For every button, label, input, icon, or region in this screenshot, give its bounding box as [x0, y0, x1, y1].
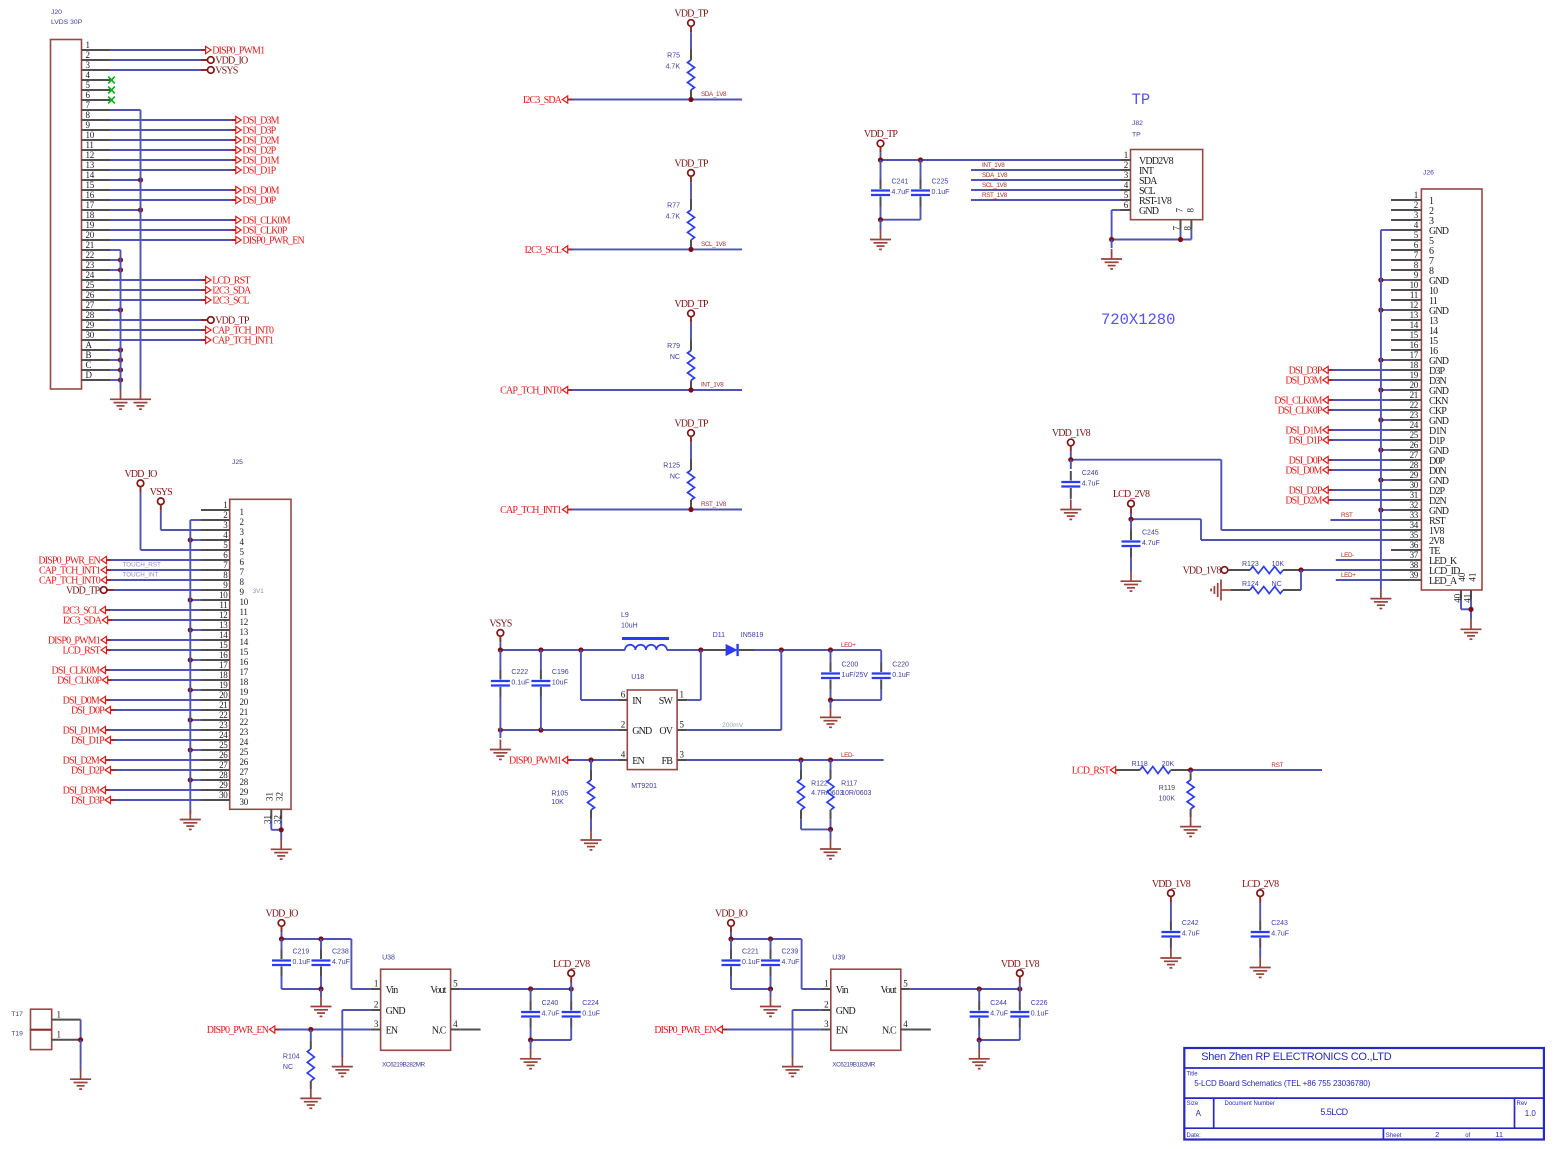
- svg-text:VDD_1V8: VDD_1V8: [1052, 428, 1091, 439]
- wire VDD_IO to J25 pin 5: [140, 487, 142, 550]
- svg-text:31: 31: [1410, 490, 1418, 500]
- J26 pin 22 CKP: [1391, 400, 1447, 417]
- svg-text:34: 34: [1410, 520, 1419, 530]
- svg-text:9: 9: [86, 120, 91, 130]
- svg-text:22: 22: [1410, 400, 1418, 410]
- svg-text:8: 8: [1414, 260, 1419, 270]
- svg-text:5.5LCD: 5.5LCD: [1320, 1107, 1348, 1117]
- J26 pin 3 3: [1391, 210, 1434, 227]
- svg-text:RST_1V8: RST_1V8: [701, 501, 727, 508]
- svg-text:U18: U18: [631, 674, 644, 681]
- svg-text:3: 3: [824, 1019, 829, 1029]
- svg-text:2: 2: [621, 720, 625, 730]
- svg-text:26: 26: [219, 750, 228, 760]
- svg-text:15: 15: [240, 647, 249, 657]
- svg-text:30: 30: [240, 797, 249, 807]
- wire VDD_TP to R79: [690, 317, 692, 340]
- wire J25 pin 20 to DSI_D0M: [106, 699, 202, 701]
- wire U18 EN to DISP0_PWM1: [568, 757, 618, 762]
- svg-text:23: 23: [86, 260, 95, 270]
- U39 pin 2 GND: [821, 1000, 856, 1017]
- wire J25 pin 6 to DISP0_PWR_EN: [107, 559, 202, 561]
- svg-text:7: 7: [86, 100, 91, 110]
- svg-text:EN: EN: [386, 1025, 398, 1036]
- svg-text:10K: 10K: [1272, 561, 1285, 568]
- wire J20 pin 1 to DISP0_PWM1: [110, 49, 206, 51]
- svg-text:C246: C246: [1082, 470, 1099, 477]
- svg-text:DSI_D3M: DSI_D3M: [1285, 376, 1322, 387]
- wire J20 pin 25 to I2C3_SDA: [110, 289, 206, 291]
- svg-text:19: 19: [219, 680, 228, 690]
- capacitor C240 4.7uF: [521, 989, 559, 1040]
- inductor L9 10uH: [621, 612, 669, 650]
- svg-text:10uF: 10uF: [552, 680, 568, 687]
- svg-text:EN: EN: [836, 1025, 848, 1036]
- svg-text:24: 24: [219, 730, 228, 740]
- svg-text:DISP0_PWR_EN: DISP0_PWR_EN: [207, 1025, 269, 1036]
- svg-text:2: 2: [1124, 160, 1128, 170]
- svg-text:0.1uF: 0.1uF: [892, 672, 910, 679]
- wire J20 pin 24 to LCD_RST: [110, 279, 206, 281]
- svg-text:8: 8: [1185, 208, 1195, 213]
- svg-text:R124: R124: [1242, 581, 1259, 588]
- U18 pin 4 EN: [617, 750, 644, 767]
- J26 pin 39 LED_A: [1391, 570, 1458, 587]
- ground under R105: [581, 830, 602, 850]
- test point T17 box: [11, 1009, 52, 1029]
- svg-text:5: 5: [1124, 190, 1129, 200]
- svg-text:DSI_D0M: DSI_D0M: [1285, 466, 1322, 477]
- svg-text:20: 20: [86, 230, 95, 240]
- flag I2C3_SCL: [62, 606, 110, 617]
- svg-text:VDD_TP: VDD_TP: [674, 158, 709, 169]
- svg-text:18: 18: [86, 210, 95, 220]
- svg-text:R75: R75: [667, 53, 680, 60]
- J82 pin 4 SCL: [1121, 180, 1156, 197]
- J20 pin 14: [82, 170, 111, 180]
- svg-text:5: 5: [223, 540, 228, 550]
- svg-text:DSI_CLK0P: DSI_CLK0P: [1278, 406, 1323, 417]
- J25 pin 30: [201, 790, 249, 807]
- flag CAP_TCH_INT1: [39, 566, 111, 577]
- flag DSI_D2P: [231, 146, 276, 157]
- svg-text:33: 33: [1410, 510, 1419, 520]
- svg-text:I2C3_SDA: I2C3_SDA: [63, 616, 103, 627]
- svg-text:25: 25: [240, 747, 249, 757]
- svg-text:10: 10: [219, 590, 228, 600]
- no-connect X on J20 pin 6: [108, 97, 115, 104]
- flag DISP0_PWR_EN: [654, 1025, 727, 1036]
- svg-text:6: 6: [223, 550, 228, 560]
- flag DSI_D0M: [231, 186, 279, 197]
- svg-text:CAP_TCH_INT0: CAP_TCH_INT0: [500, 386, 562, 397]
- wire VDD_1V8 to J26 pin 34: [1068, 446, 1391, 530]
- J20 pin B: [82, 350, 111, 360]
- svg-text:J82: J82: [1132, 120, 1143, 127]
- svg-text:VDD_1V8: VDD_1V8: [1001, 959, 1040, 970]
- J20 pin 11: [82, 140, 111, 150]
- svg-text:21: 21: [240, 707, 248, 717]
- J26 pin 7 7: [1391, 250, 1434, 267]
- wire J20 pin 3 to VSYS: [110, 69, 208, 71]
- svg-text:19: 19: [240, 687, 249, 697]
- svg-text:FB: FB: [662, 756, 674, 767]
- svg-text:C242: C242: [1182, 920, 1199, 927]
- J25 pin 14: [201, 630, 249, 647]
- svg-text:XC6219B282MR: XC6219B282MR: [382, 1062, 425, 1069]
- svg-text:1: 1: [86, 40, 90, 50]
- svg-text:MT9201: MT9201: [631, 783, 657, 790]
- wire U18 SW to rail: [687, 650, 701, 700]
- wire J20 pin 2 to VDD_IO: [110, 59, 208, 61]
- wire J25 pin 14 to DISP0_PWM1: [107, 639, 202, 641]
- svg-text:INT_1V8: INT_1V8: [982, 162, 1005, 169]
- U18 pin 2 GND: [617, 720, 652, 737]
- U38 pin 4 N.C: [432, 1019, 481, 1036]
- U38 pin 3 EN: [371, 1019, 398, 1036]
- wire J25 pin 10 junction: [188, 597, 201, 602]
- svg-text:1: 1: [680, 690, 684, 700]
- wire J20 pin C junction: [110, 367, 123, 372]
- wire U18 GND to C222/C196: [498, 727, 618, 738]
- svg-text:39: 39: [1410, 570, 1419, 580]
- flag DSI_D1M: [63, 726, 110, 737]
- svg-text:30: 30: [86, 330, 95, 340]
- wire J26 pin 25 to DSI_D1P: [1328, 439, 1391, 441]
- capacitor C243 4.7uF: [1251, 897, 1289, 959]
- flag DSI_CLK0P: [231, 226, 287, 237]
- J26 pin 9 GND: [1391, 270, 1449, 287]
- J25 pin 18: [201, 670, 249, 687]
- flag DSI_CLK0P: [57, 676, 112, 687]
- svg-text:13: 13: [86, 160, 95, 170]
- wire R123 to J26 pin 38: [1298, 567, 1391, 572]
- power port VSYS: [201, 66, 238, 77]
- svg-text:DSI_D2M: DSI_D2M: [1285, 496, 1322, 507]
- wire J25 pin 21 to DSI_D0P: [111, 709, 202, 711]
- wire net LED+ to J26 pin 39: [1336, 572, 1391, 580]
- J25 pin 31: [263, 792, 275, 824]
- J26 pin 14 14: [1391, 320, 1438, 337]
- J26 pin 36 TE: [1391, 540, 1440, 557]
- svg-text:LCD_RST: LCD_RST: [1072, 766, 1110, 777]
- svg-text:2: 2: [1414, 200, 1418, 210]
- wire J25 pin 5 from VDD_IO: [141, 549, 202, 551]
- J20 pin 3: [82, 60, 111, 70]
- J20 pin 23: [82, 260, 111, 270]
- svg-text:DISP0_PWM1: DISP0_PWM1: [509, 756, 562, 767]
- svg-text:VDD_TP: VDD_TP: [864, 129, 899, 140]
- J20 pin D: [82, 370, 111, 380]
- svg-text:38: 38: [1410, 560, 1419, 570]
- svg-text:LVDS 30P: LVDS 30P: [51, 19, 83, 26]
- wire J20 pin 8 to DSI_D3M: [110, 119, 236, 121]
- wire J20 pin 9 to DSI_D3P: [110, 129, 236, 131]
- wire net INT_1V8: [568, 382, 742, 393]
- svg-text:Date:: Date:: [1187, 1133, 1202, 1139]
- J26 pin 6 6: [1391, 240, 1434, 257]
- svg-text:R125: R125: [663, 463, 680, 470]
- svg-text:4.7uF: 4.7uF: [332, 959, 350, 966]
- capacitor C244 4.7uF: [970, 989, 1008, 1040]
- svg-text:NC: NC: [283, 1064, 293, 1071]
- J26 pin 23 GND: [1391, 410, 1449, 427]
- J20 pin 20: [82, 230, 111, 240]
- flag DSI_D3M: [63, 786, 110, 797]
- svg-text:NC: NC: [1272, 581, 1282, 588]
- wire J25 pin 22 junction: [188, 717, 201, 722]
- svg-text:8: 8: [86, 110, 91, 120]
- wire C241/C225 bottoms: [878, 217, 921, 230]
- J26 pin 13 13: [1391, 310, 1438, 327]
- svg-text:27: 27: [1410, 450, 1419, 460]
- svg-text:LED+: LED+: [841, 642, 856, 649]
- flag DSI_D3P: [1289, 366, 1333, 377]
- wire net RST_1V8: [568, 501, 742, 512]
- J25 pin 25: [201, 740, 249, 757]
- wire net SDA_1V8: [568, 91, 742, 102]
- ground under C239: [760, 997, 781, 1017]
- net label TOUCH_RST: [123, 562, 162, 569]
- capacitor C224 0.1uF: [562, 989, 600, 1040]
- svg-text:VDD_IO: VDD_IO: [715, 909, 748, 920]
- J26 pin 18 D3P: [1391, 360, 1446, 377]
- ground J20 rail1: [110, 389, 131, 409]
- svg-text:U39: U39: [832, 955, 845, 962]
- svg-text:R104: R104: [283, 1054, 300, 1061]
- wire J20 pin 19 to DSI_CLK0P: [110, 229, 236, 231]
- svg-text:1uF/25V: 1uF/25V: [842, 672, 869, 679]
- power port VDD_TP above R125: [674, 419, 709, 437]
- ground under C241: [870, 230, 891, 250]
- svg-text:LED-: LED-: [841, 752, 854, 759]
- ground J20 rail2: [130, 389, 151, 409]
- capacitor C239 4.7uF: [761, 939, 799, 989]
- J25 pin 22: [201, 710, 248, 727]
- wire J25 pin 18 to DSI_CLK0P: [108, 679, 201, 681]
- wire J20 gnd rail 1: [120, 250, 122, 390]
- svg-text:R118: R118: [1132, 761, 1148, 768]
- svg-text:10R/0603: 10R/0603: [841, 790, 871, 797]
- wire J25 pin 8 to CAP_TCH_INT0: [107, 579, 202, 581]
- ground under R104: [300, 1088, 321, 1108]
- svg-text:16: 16: [1410, 340, 1419, 350]
- power port VDD_TP: [201, 316, 250, 327]
- svg-text:VSYS: VSYS: [150, 487, 172, 498]
- svg-text:CAP_TCH_INT1: CAP_TCH_INT1: [212, 336, 274, 347]
- svg-text:RST_1V8: RST_1V8: [982, 192, 1008, 199]
- svg-text:29: 29: [1410, 470, 1419, 480]
- wire J20 pin 10 to DSI_D2M: [110, 139, 236, 141]
- J26 pin 35 2V8: [1391, 530, 1445, 547]
- J26 pin 20 GND: [1391, 380, 1449, 397]
- svg-text:TP: TP: [1132, 91, 1151, 109]
- wire J25 pin 23 to DSI_D1M: [106, 729, 202, 731]
- svg-text:VSYS: VSYS: [215, 66, 237, 77]
- svg-text:LED+: LED+: [1341, 572, 1356, 579]
- svg-text:4: 4: [1414, 220, 1419, 230]
- svg-text:1: 1: [1414, 190, 1418, 200]
- flag CAP_TCH_INT0: [500, 386, 572, 397]
- svg-text:6: 6: [1414, 240, 1419, 250]
- U18 pin 6 IN: [617, 690, 641, 707]
- ground under C242: [1160, 948, 1181, 968]
- wire J20 pin 28 to VDD_TP: [110, 319, 208, 321]
- wire J25 pin 4 junction: [188, 537, 201, 542]
- J25 pin 3: [201, 520, 245, 537]
- J20 pin 30: [82, 330, 111, 340]
- J25 pin 16: [201, 650, 249, 667]
- power port VDD_TP at J82: [864, 129, 899, 147]
- svg-text:13: 13: [1410, 310, 1419, 320]
- wire J20 pin 7 to gnd rail: [110, 109, 141, 111]
- wire J26 pin 31 to DSI_D2M: [1328, 499, 1391, 501]
- flag DSI_D0M: [1285, 466, 1332, 477]
- J20 pin 19: [82, 220, 111, 230]
- J20 pin 28: [82, 310, 111, 320]
- wire net RST from R118: [1188, 762, 1322, 773]
- capacitor C238 4.7uF: [312, 939, 350, 989]
- flag DSI_D3P: [231, 126, 276, 137]
- svg-text:R105: R105: [551, 791, 568, 798]
- J20 pin 4: [82, 70, 111, 80]
- svg-text:28: 28: [1410, 460, 1419, 470]
- J20 pin 15: [82, 180, 111, 190]
- svg-text:D11: D11: [713, 632, 725, 639]
- svg-text:DSI_D0P: DSI_D0P: [71, 706, 105, 717]
- svg-text:DSI_D1P: DSI_D1P: [242, 166, 276, 177]
- svg-text:25: 25: [219, 740, 228, 750]
- wire J26 pin 23 gnd junction: [1378, 417, 1391, 422]
- J20 pin 24: [82, 270, 111, 280]
- svg-text:C221: C221: [742, 949, 759, 956]
- svg-text:0.1uF: 0.1uF: [511, 680, 529, 687]
- svg-text:4.7uF: 4.7uF: [1271, 931, 1289, 938]
- svg-text:30: 30: [219, 790, 228, 800]
- ground under C245: [1121, 571, 1142, 591]
- wire J25 pin31 to pin32 gnd: [271, 819, 284, 839]
- svg-text:20: 20: [219, 690, 228, 700]
- ground J26 pins 40/41: [1461, 619, 1482, 639]
- ground under U39 GND pin: [782, 1057, 803, 1077]
- svg-text:Vout: Vout: [880, 985, 896, 996]
- power port VDD_1V8 at R123: [1183, 566, 1236, 577]
- svg-text:29: 29: [86, 320, 95, 330]
- wire J25 pin 19 junction: [188, 687, 201, 692]
- svg-text:R117: R117: [841, 781, 857, 788]
- wire J25 pin 26 to DSI_D2M: [106, 759, 202, 761]
- wire J25 pin 15 to LCD_RST: [107, 649, 202, 651]
- svg-text:10: 10: [240, 597, 249, 607]
- svg-text:27: 27: [219, 760, 228, 770]
- J20 pin 6: [82, 90, 111, 100]
- J82 pin 1 VDD2V8: [1121, 150, 1174, 167]
- J20 pin 25: [82, 280, 111, 290]
- J26 pin 29 GND: [1391, 470, 1449, 487]
- wire J26 pin 27 to DSI_D0P: [1328, 459, 1391, 461]
- svg-text:OV: OV: [659, 726, 673, 737]
- J26 pin 27 D0P: [1391, 450, 1446, 467]
- flag DSI_CLK0M: [231, 216, 290, 227]
- wire J25 pin 2 to gnd rail: [190, 519, 201, 521]
- wire J20 pin 29 to CAP_TCH_INT0: [110, 329, 206, 331]
- svg-text:10: 10: [86, 130, 95, 140]
- J26 pin 8 8: [1391, 260, 1434, 277]
- power port VDD_TP above R77: [674, 158, 709, 176]
- svg-text:Vout: Vout: [430, 985, 446, 996]
- J82 pin 8: [1182, 208, 1195, 231]
- svg-text:CAP_TCH_INT1: CAP_TCH_INT1: [500, 505, 562, 516]
- svg-text:XC6219B182MR: XC6219B182MR: [832, 1062, 875, 1069]
- ground under J82: [1101, 249, 1122, 269]
- J26 pin 4 GND: [1391, 220, 1449, 237]
- svg-text:J25: J25: [232, 459, 243, 466]
- J20 pin 7: [82, 100, 111, 110]
- J26 pin 30 D2P: [1391, 480, 1446, 497]
- svg-text:2: 2: [824, 1000, 828, 1010]
- wire J26 pin 12 gnd junction: [1378, 307, 1391, 312]
- svg-text:12: 12: [240, 617, 248, 627]
- wire J26 pin 18 to DSI_D3P: [1328, 369, 1391, 371]
- svg-text:1: 1: [1124, 150, 1128, 160]
- U38 pin 1 Vin: [371, 979, 399, 996]
- svg-text:A: A: [86, 340, 93, 350]
- svg-text:4.7uF: 4.7uF: [542, 1011, 560, 1018]
- J25 pin 27: [201, 760, 249, 777]
- svg-text:DSI_D3P: DSI_D3P: [71, 796, 105, 807]
- wire net SCL_1V8: [568, 241, 742, 252]
- svg-text:GND: GND: [1139, 206, 1159, 217]
- svg-text:R79: R79: [667, 343, 680, 350]
- resistor R77 4.7K: [666, 199, 695, 250]
- flag CAP_TCH_INT1: [201, 336, 274, 347]
- J82 pin 6 GND: [1121, 200, 1159, 217]
- svg-text:18: 18: [1410, 360, 1419, 370]
- svg-text:4.7K: 4.7K: [666, 213, 681, 220]
- svg-text:VDD_TP: VDD_TP: [66, 586, 101, 597]
- svg-text:TOUCH_INT: TOUCH_INT: [123, 572, 159, 579]
- U39 pin 4 N.C: [882, 1019, 931, 1036]
- svg-text:R122: R122: [811, 781, 828, 788]
- svg-text:7: 7: [223, 560, 228, 570]
- svg-text:10K: 10K: [551, 799, 564, 806]
- capacitor C200 1uF/25V: [821, 650, 868, 700]
- svg-text:13: 13: [240, 627, 249, 637]
- ground under C222: [490, 740, 511, 760]
- ground J25 rail: [180, 810, 201, 830]
- svg-text:SDA_1V8: SDA_1V8: [982, 172, 1008, 179]
- svg-text:18: 18: [240, 677, 249, 687]
- svg-text:28: 28: [240, 777, 249, 787]
- svg-text:SCL_1V8: SCL_1V8: [701, 241, 726, 248]
- svg-text:6: 6: [86, 90, 91, 100]
- svg-text:18: 18: [219, 670, 228, 680]
- U18 pin 3 FB: [662, 750, 688, 767]
- svg-text:Document Number: Document Number: [1225, 1101, 1275, 1107]
- wire J20 pin 17 junction: [110, 207, 143, 212]
- svg-text:14: 14: [240, 637, 249, 647]
- ground under R117: [820, 839, 841, 859]
- svg-text:U38: U38: [382, 955, 395, 962]
- resistor R118 20K: [1118, 761, 1191, 774]
- flag DSI_D3M: [231, 116, 279, 127]
- svg-text:C220: C220: [892, 662, 909, 669]
- wire J20 pin 21 to gnd rail: [110, 249, 121, 251]
- svg-text:16: 16: [86, 190, 95, 200]
- flag I2C3_SCL: [525, 245, 573, 256]
- svg-text:3: 3: [1414, 210, 1419, 220]
- svg-text:10uH: 10uH: [621, 623, 638, 630]
